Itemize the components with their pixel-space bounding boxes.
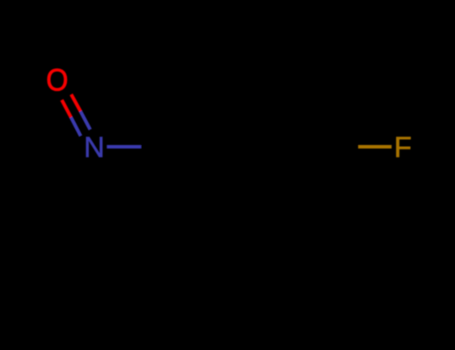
svg-text:O: O [46, 63, 68, 98]
N=O double bond, line A (right), oxygen half (red) [71, 94, 80, 111]
wire: N to C1 bond, carbon half (black) [141, 145, 175, 149]
N=O double bond, line A (right), nitrogen half (blue) [80, 111, 90, 129]
N=O double bond, line B (left), nitrogen half (blue) [71, 117, 81, 136]
wire: C4 to F bond, carbon half (black) [325, 145, 358, 149]
wire: C4 to F bond, fluorine half (olive) [358, 145, 391, 149]
N=O double bond, line B (left), oxygen half (red) [62, 100, 71, 117]
svg-text:F: F [394, 132, 412, 164]
benzene ring (carbon skeleton, black on black) [175, 82, 325, 212]
methyl group bond (black on black) [175, 212, 213, 277]
svg-text:N: N [84, 132, 105, 164]
wire: N to C1 bond, nitrogen half (blue) [107, 145, 141, 149]
